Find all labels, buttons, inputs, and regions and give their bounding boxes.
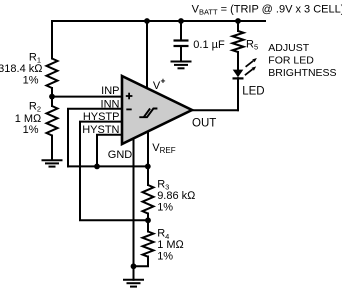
svg-text:1 MΩ: 1 MΩ	[15, 113, 42, 125]
svg-text:9.86 kΩ: 9.86 kΩ	[157, 190, 196, 202]
svg-text:BRIGHTNESS: BRIGHTNESS	[268, 67, 336, 79]
svg-text:+: +	[161, 75, 166, 85]
svg-text:HYSTP: HYSTP	[83, 111, 120, 123]
svg-text:1%: 1%	[23, 74, 39, 86]
svg-text:INP: INP	[101, 85, 119, 97]
svg-text:1%: 1%	[157, 251, 173, 263]
svg-text:0.1 µF: 0.1 µF	[193, 39, 225, 51]
svg-text:INN: INN	[101, 98, 120, 110]
svg-text:1%: 1%	[23, 124, 39, 136]
svg-text:LED: LED	[242, 85, 264, 97]
svg-text:GND: GND	[108, 149, 133, 161]
svg-text:1 MΩ: 1 MΩ	[157, 239, 184, 251]
svg-text:1%: 1%	[157, 202, 173, 214]
svg-text:FOR LED: FOR LED	[268, 55, 314, 67]
svg-text:OUT: OUT	[192, 117, 216, 129]
svg-text:ADJUST: ADJUST	[268, 42, 309, 54]
svg-text:HYSTN: HYSTN	[82, 124, 119, 136]
svg-text:318.4 kΩ: 318.4 kΩ	[0, 63, 43, 75]
